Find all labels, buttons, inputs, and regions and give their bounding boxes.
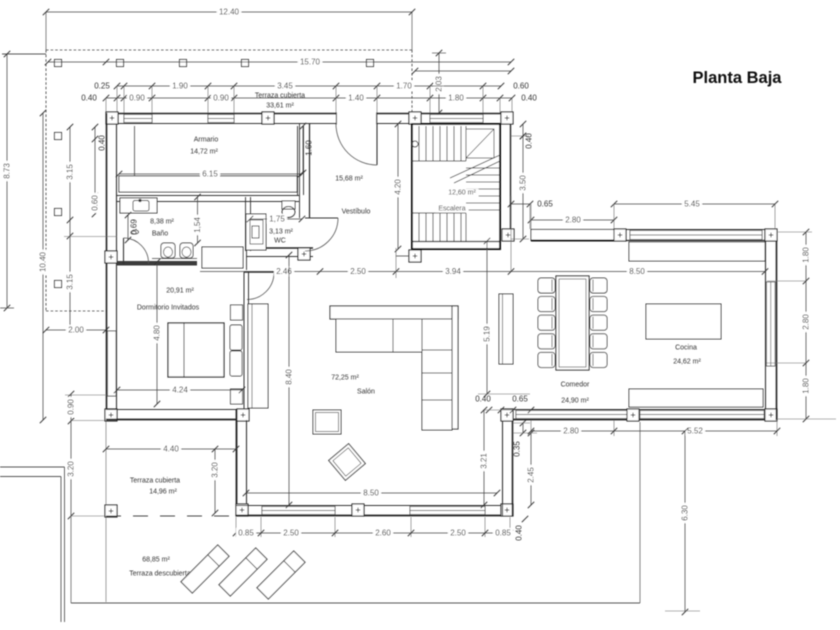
dim 12.40 extension lines [45, 12, 47, 50]
svg-text:0.40: 0.40 [525, 133, 534, 149]
corridor wall column [298, 248, 310, 260]
nightstand bottom [231, 389, 243, 404]
terraza column bottom-left [105, 505, 117, 517]
dim line over stairwell [415, 70, 511, 72]
terrace post 4 [242, 60, 249, 67]
terrace post 1 [55, 60, 62, 67]
stair SW column [409, 250, 421, 262]
svg-text:24,90 m²: 24,90 m² [561, 398, 589, 405]
svg-text:14,72 m²: 14,72 m² [190, 149, 218, 156]
svg-text:0.40: 0.40 [475, 395, 491, 404]
svg-text:4.40: 4.40 [163, 445, 179, 454]
svg-text:12,60 m²: 12,60 m² [448, 190, 476, 197]
dormitorio south wall [106, 409, 249, 411]
svg-text:0.85: 0.85 [238, 529, 254, 538]
svg-text:0.90: 0.90 [129, 94, 145, 103]
kitchen east wall column top [765, 229, 777, 241]
svg-text:8,38 m²: 8,38 m² [150, 219, 174, 226]
kitchen right extension lines [777, 231, 812, 233]
svg-text:3.21: 3.21 [480, 453, 489, 469]
dim chain corridor (2.46 / 2.50 / 3.94 / 8.50) [200, 271, 765, 273]
kitchen north wall window part [626, 229, 765, 231]
left wall extension lines [64, 236, 117, 238]
svg-text:0.60: 0.60 [91, 195, 100, 211]
bano basin 2 [180, 243, 193, 258]
wc east wall [299, 124, 301, 218]
terrace post 7 [55, 209, 62, 216]
stair lower flight treads [418, 213, 420, 241]
svg-text:1.70: 1.70 [396, 82, 412, 91]
stair lower landing line [412, 212, 466, 214]
dim 4.24 [117, 389, 242, 391]
svg-text:Baño: Baño [152, 231, 168, 238]
dim 0.65 kitchen [511, 203, 530, 205]
extension line x396 [395, 248, 397, 278]
stair winder treads [466, 167, 500, 169]
dim 4.80 [156, 262, 158, 404]
svg-text:Salón: Salón [357, 389, 375, 396]
salon south window 1 [262, 507, 335, 515]
dormitorio door leaf [244, 271, 274, 273]
kitchen north wall column mid [614, 229, 626, 241]
svg-text:72,25 m²: 72,25 m² [331, 375, 359, 382]
svg-text:0.25: 0.25 [94, 82, 110, 91]
svg-text:2.46: 2.46 [276, 267, 292, 276]
svg-text:WC: WC [274, 238, 286, 245]
svg-text:Terraza descubierta: Terraza descubierta [129, 571, 191, 578]
svg-text:2.80: 2.80 [563, 427, 579, 436]
svg-text:2.50: 2.50 [350, 267, 366, 276]
dim 2.03 top tick line [432, 52, 446, 54]
top wall window 2 [208, 115, 234, 123]
svg-text:1,54: 1,54 [193, 217, 202, 233]
svg-text:Armario: Armario [194, 137, 219, 144]
svg-text:68,85 m²: 68,85 m² [142, 557, 170, 564]
svg-text:0.65: 0.65 [537, 200, 553, 209]
kitchen east window [767, 282, 776, 366]
dim 0.69 [127, 215, 129, 240]
site boundary line top-left [2, 53, 46, 55]
svg-text:14,96 m²: 14,96 m² [149, 489, 177, 496]
vestibule east wall [500, 124, 502, 229]
kitchen south wall column right [765, 409, 777, 421]
dim 2.45 [530, 433, 532, 505]
bed pillows [230, 325, 242, 350]
dim 8.73 [6, 54, 8, 308]
kitchen north wall solid part [531, 230, 614, 241]
svg-text:Vestíbulo: Vestíbulo [342, 209, 371, 216]
bano door leaf [123, 238, 125, 264]
top wall [106, 113, 513, 115]
svg-text:3.50: 3.50 [519, 175, 528, 191]
svg-text:1.40: 1.40 [348, 94, 364, 103]
bano north wall [117, 195, 299, 197]
entry door opening [337, 113, 377, 125]
svg-text:1.80: 1.80 [802, 378, 811, 394]
svg-text:2.03: 2.03 [435, 76, 444, 92]
dining chairs [538, 278, 555, 293]
stair upper flight treads [418, 126, 420, 161]
sideboard [499, 294, 513, 364]
svg-text:8.50: 8.50 [629, 267, 645, 276]
svg-text:Dormitorio Invitados: Dormitorio Invitados [137, 305, 200, 312]
terrace post 5 [367, 60, 374, 67]
terrace post 6 [55, 133, 62, 140]
svg-text:2.80: 2.80 [802, 314, 811, 330]
terraza cubierta left edge line [105, 421, 107, 602]
svg-text:4.20: 4.20 [394, 179, 403, 195]
top wall window 3 [430, 115, 483, 123]
kitchen top extension lines [530, 204, 532, 229]
svg-text:Planta Baja: Planta Baja [693, 69, 783, 87]
salon west wall column bottom [236, 504, 248, 516]
bano south wall [117, 261, 197, 266]
extension lines above top wall [116, 86, 118, 113]
svg-text:4.24: 4.24 [172, 386, 188, 395]
svg-text:5.52: 5.52 [687, 427, 703, 436]
svg-text:6.15: 6.15 [202, 170, 218, 179]
dim 8.50 salon [246, 492, 497, 494]
svg-text:10.40: 10.40 [39, 251, 48, 272]
svg-text:0.90: 0.90 [213, 94, 229, 103]
left wall column bottom [105, 409, 117, 421]
terrace west dim line (0.90 / 3.20) [70, 394, 72, 516]
dim 6.30 [684, 431, 686, 612]
top wall window 1 [124, 115, 152, 123]
svg-text:8.40: 8.40 [285, 369, 294, 385]
kitchen bottom extension lines [530, 420, 532, 436]
svg-text:3.15: 3.15 [66, 164, 75, 180]
left wall column mid [105, 251, 117, 263]
svg-text:8.50: 8.50 [363, 489, 379, 498]
stair upper right return [466, 129, 494, 158]
wc door leaf [305, 217, 338, 219]
dim 3.50 [522, 136, 524, 239]
dim chain salon bottom (0.85/2.50/2.60/2.50/0.85) [236, 532, 510, 534]
svg-text:0.65: 0.65 [512, 395, 528, 404]
site boundary lines bottom-left [0, 466, 65, 468]
wc door arc [305, 218, 338, 251]
salon bottom extension lines [235, 517, 237, 537]
svg-text:33,61 m²: 33,61 m² [266, 103, 294, 110]
kitchen south wall column left [501, 409, 513, 421]
dim 2.00 [46, 329, 106, 331]
dashed terrace outline bottom edge [46, 310, 106, 312]
svg-text:0.40: 0.40 [521, 94, 537, 103]
dim 10.40 [42, 113, 44, 420]
svg-text:3.20: 3.20 [67, 461, 76, 477]
dim 4.40 [106, 448, 236, 450]
svg-text:24,62 m²: 24,62 m² [673, 359, 701, 366]
svg-text:5.19: 5.19 [483, 326, 492, 342]
svg-text:12.40: 12.40 [219, 8, 240, 17]
svg-text:Comedor: Comedor [561, 382, 590, 389]
dim 6.30 bottom line [665, 610, 700, 612]
bano door arc [124, 238, 149, 264]
dim 1.60 [302, 126, 304, 173]
kitchen south wall [502, 409, 777, 411]
svg-text:0.40: 0.40 [81, 94, 97, 103]
dim 5.45 [614, 203, 775, 205]
coffee table [313, 410, 341, 434]
sofa back horizontal [330, 306, 458, 319]
salon west wall [236, 409, 238, 516]
corridor wall [246, 247, 313, 249]
dim 0.40 right of stairs [511, 135, 529, 137]
svg-text:1.80: 1.80 [802, 247, 811, 263]
svg-text:0.40: 0.40 [515, 525, 524, 541]
dormitorio east wall [243, 272, 245, 409]
svg-text:2.50: 2.50 [283, 529, 299, 538]
svg-text:3,13 m²: 3,13 m² [269, 229, 293, 236]
lounge chair 1 [181, 545, 229, 593]
svg-text:1.80: 1.80 [448, 94, 464, 103]
svg-text:0.40: 0.40 [98, 135, 107, 151]
dim 5.19 [486, 241, 488, 394]
stair upper landing line [412, 160, 466, 162]
dim chain kitchen right (1.80/2.80/1.80) [805, 232, 807, 419]
salon south window 2 [410, 507, 485, 515]
left wall window [108, 331, 117, 396]
dashed terrace outline right edge [411, 50, 413, 113]
svg-text:2.50: 2.50 [450, 529, 466, 538]
armchair [329, 444, 366, 481]
svg-text:3.94: 3.94 [445, 267, 461, 276]
svg-text:2.80: 2.80 [565, 216, 581, 225]
bano door knob [132, 230, 139, 234]
svg-text:20,91 m²: 20,91 m² [166, 288, 194, 295]
bed [168, 323, 224, 377]
top wall column 4 [501, 112, 513, 124]
kitchen island [646, 304, 721, 339]
lounge chair 3 [257, 551, 305, 599]
wc toilet [282, 201, 295, 209]
terraza descubierta right edge [639, 422, 641, 603]
dim 2.03 [438, 53, 440, 113]
svg-text:0.35: 0.35 [513, 441, 522, 457]
dormitorio south wall column right [237, 409, 249, 421]
sofa seat horizontal [336, 319, 422, 352]
stub wall salon-comedor [502, 420, 504, 516]
terrace post 3 [180, 60, 187, 67]
svg-text:2.00: 2.00 [68, 326, 84, 335]
salon south wall column mid [352, 504, 364, 516]
entry door arc [336, 124, 377, 165]
armario closet [119, 176, 297, 192]
terrace post 8 [55, 281, 62, 288]
svg-text:0.60: 0.60 [513, 82, 529, 91]
dim 0.35 [522, 423, 524, 433]
dim chain kitchen bottom (2.80/5.52) [531, 430, 777, 432]
svg-text:3.15: 3.15 [66, 274, 75, 290]
kitchen north wall column left [502, 229, 514, 241]
dashed terrace south edge [106, 515, 236, 517]
label escalera [445, 189, 478, 197]
dim chain left A (3.15 / 3.15) [69, 127, 71, 329]
extension line y394 [478, 393, 530, 395]
dim 3.20 [214, 449, 216, 513]
stair break line [450, 155, 500, 178]
salon south wall [236, 515, 513, 517]
extension line x511 [510, 196, 512, 271]
top wall column 3 [409, 112, 421, 124]
dim 8.40 [288, 255, 290, 505]
dim 1.75 [250, 218, 302, 220]
svg-text:Terraza cubierta: Terraza cubierta [255, 93, 305, 100]
svg-text:8.73: 8.73 [3, 163, 12, 179]
wardrobe [248, 304, 268, 408]
svg-text:1.90: 1.90 [172, 82, 188, 91]
svg-text:0.69: 0.69 [130, 219, 139, 235]
kitchen south window 2 [640, 411, 764, 419]
svg-text:0.90: 0.90 [67, 399, 76, 415]
lounge chair 2 [219, 548, 267, 596]
wc west wall [245, 197, 247, 251]
dormitorio door arc [247, 273, 274, 300]
bano basin 1 [161, 243, 175, 258]
dim chain lower (0.40 / 0.90 / 0.90 / 1.40 / 1.80 / 0.40) [106, 97, 512, 99]
sofa seat vertical [422, 319, 452, 430]
dim 3.21 [483, 410, 485, 505]
nightstand top [231, 305, 243, 320]
top wall column 1 [106, 112, 118, 124]
dashed terrace outline top edge [46, 49, 412, 51]
sofa right band [452, 306, 458, 429]
kitchen counter bottom [629, 389, 763, 407]
svg-text:2.45: 2.45 [527, 467, 536, 483]
svg-text:Cocina: Cocina [675, 345, 697, 352]
svg-text:2.60: 2.60 [375, 529, 391, 538]
dim 6.15 [119, 173, 301, 175]
svg-text:Terraza cubierta: Terraza cubierta [130, 478, 180, 485]
svg-text:3.20: 3.20 [211, 462, 220, 478]
terrace post 2 [117, 60, 124, 67]
salon south wall column right [501, 504, 513, 516]
top wall column 2 [262, 112, 274, 124]
dim chain left B (0.40 / 0.60) [94, 127, 96, 214]
kitchen counter top [629, 242, 765, 261]
dim 4.20 [397, 124, 399, 249]
kitchen south wall column mid [627, 409, 639, 421]
stair bottom wall band [412, 241, 500, 243]
svg-text:15,68 m²: 15,68 m² [335, 176, 363, 183]
dashed terrace outline left edge [45, 50, 47, 311]
svg-text:Escalera: Escalera [438, 206, 465, 213]
dim 2.80 kitchen top [531, 219, 614, 221]
left wall [106, 113, 108, 420]
corridor closet [202, 247, 243, 268]
stair enclosure [412, 124, 500, 249]
dim chain upper (0.25 / 1.90 / 3.45 / 1.70 / 0.60) [117, 85, 501, 87]
svg-text:4.80: 4.80 [153, 325, 162, 341]
shower [120, 198, 157, 213]
svg-text:6.30: 6.30 [681, 505, 690, 521]
dining table [556, 276, 589, 370]
svg-text:1,75: 1,75 [269, 215, 285, 224]
entry door leaf [376, 124, 378, 165]
bano vanity edge [152, 258, 197, 260]
stair start marker [412, 141, 418, 147]
site boundary vertical double line left [60, 477, 62, 623]
armario closet partition [134, 126, 136, 176]
kitchen south window 1 [516, 411, 627, 419]
svg-text:0.85: 0.85 [495, 529, 511, 538]
dim 15.70 [48, 61, 511, 63]
svg-text:15.70: 15.70 [300, 58, 321, 67]
dim 1.54 [197, 197, 199, 243]
terraza descubierta bottom edge [71, 602, 640, 604]
svg-text:5.45: 5.45 [684, 200, 700, 209]
svg-text:3.45: 3.45 [277, 82, 293, 91]
kitchen east wall [776, 229, 778, 420]
dim 12.40 [46, 11, 412, 13]
armario east wall [297, 126, 299, 195]
wc shaft [246, 214, 266, 250]
